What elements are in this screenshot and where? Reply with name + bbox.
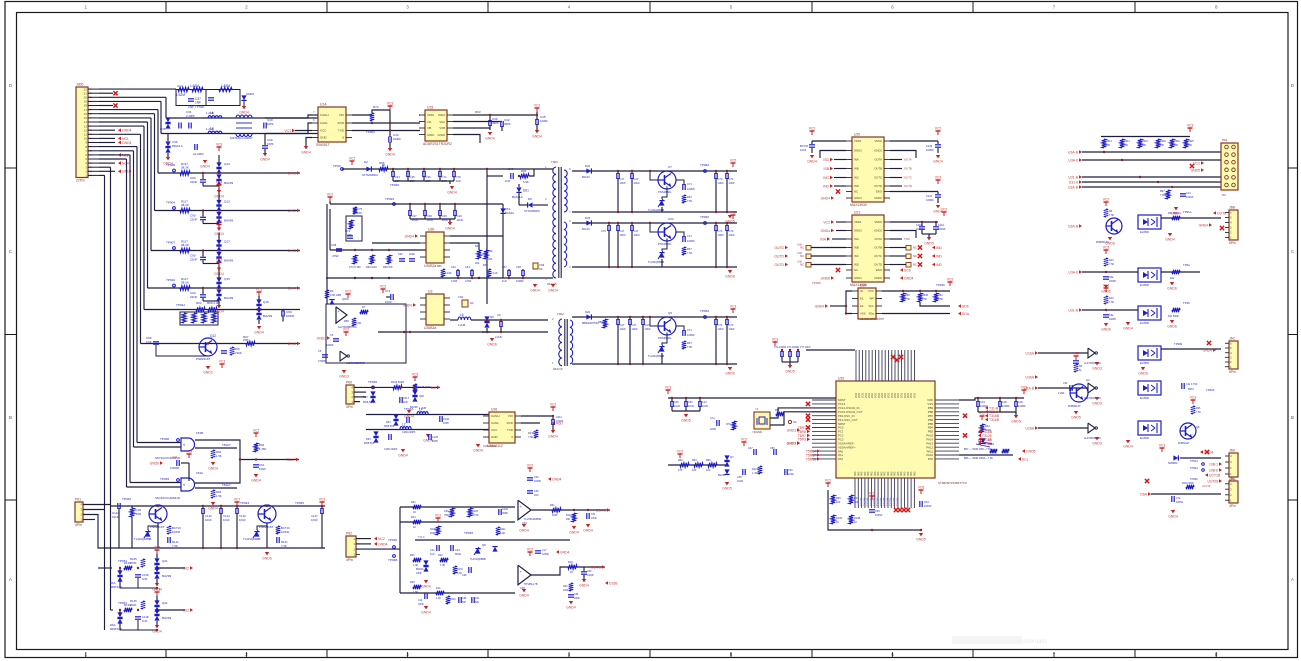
svg-text:10UF: 10UF [718,327,725,331]
svg-text:T312B6: T312B6 [896,497,899,506]
svg-text:1UF: 1UF [456,179,462,183]
svg-text:6Pin: 6Pin [1229,370,1236,374]
svg-text:BCT16: BCT16 [800,144,809,148]
svg-text:CN2: CN2 [458,295,464,299]
svg-text:26.5K: 26.5K [472,514,479,517]
svg-text:153A: 153A [196,471,203,475]
svg-text:R696: R696 [922,294,929,297]
svg-text:1NF: 1NF [505,179,511,183]
svg-text:CN9: CN9 [539,263,545,267]
svg-text:10K: 10K [854,501,859,504]
svg-text:VC3: VC3 [256,288,263,292]
svg-text:VOA: VOA [439,120,445,124]
svg-text:A62M: A62M [246,92,254,96]
svg-text:10UF: 10UF [620,233,627,237]
svg-text:C94: C94 [924,501,929,504]
svg-text:TP946: TP946 [936,283,945,287]
svg-text:C6a: C6a [1109,314,1114,317]
svg-text:100NF: 100NF [1018,404,1026,408]
svg-text:10UF: 10UF [620,181,627,185]
svg-text:GND5: GND5 [1071,416,1081,420]
svg-text:SD6: SD6 [962,304,969,308]
svg-text:GND3: GND3 [787,428,797,432]
svg-text:Q21: Q21 [162,559,168,563]
svg-text:2.20PF: 2.20PF [186,114,195,118]
svg-text:OUTD: OUTD [774,246,784,250]
svg-text:VC2: VC2 [1103,198,1110,202]
svg-text:R77: R77 [201,315,206,319]
svg-text:100NF: 100NF [926,198,934,202]
svg-text:GND2: GND2 [874,276,882,280]
svg-text:ISD: ISD [823,158,829,162]
svg-text:VCC: VCC [320,129,327,133]
svg-text:9K: 9K [382,163,386,167]
svg-text:VIB: VIB [427,126,432,130]
svg-text:R56: R56 [344,319,349,323]
svg-text:R74: R74 [373,105,379,109]
svg-text:TP907: TP907 [166,241,175,245]
svg-text:VC5: VC5 [730,159,737,163]
svg-text:R91: R91 [938,294,943,297]
svg-text:2.11K: 2.11K [491,271,498,275]
svg-text:1K: 1K [413,511,416,514]
svg-text:C106: C106 [443,418,450,421]
svg-text:100NF: 100NF [924,505,932,508]
svg-text:C22: C22 [172,455,178,459]
svg-text:A2.20PF: A2.20PF [193,152,204,156]
svg-text:VC3: VC3 [387,102,394,106]
svg-text:T3132: T3132 [982,442,992,446]
svg-text:100NF: 100NF [286,314,295,318]
svg-text:C71: C71 [687,328,692,332]
svg-text:R66: R66 [706,459,711,462]
svg-text:GND5: GND5 [681,419,691,423]
svg-text:C12 4.7NF: C12 4.7NF [1186,383,1198,386]
svg-text:VC3: VC3 [216,143,223,147]
svg-text:R129: R129 [124,561,131,565]
svg-text:7.5K: 7.5K [1109,263,1114,266]
svg-text:C36: C36 [1018,400,1023,404]
svg-text:VOB: VOB [439,126,445,130]
svg-text:66UF: 66UF [455,553,462,556]
svg-text:1.5K: 1.5K [938,298,943,301]
svg-text:GND3: GND3 [1092,402,1102,406]
svg-text:C12: C12 [702,401,707,404]
svg-text:VC2: VC2 [527,464,534,468]
svg-text:VC3: VC3 [1187,124,1194,128]
svg-text:22AF: 22AF [409,253,415,256]
svg-text:GND6: GND6 [1167,325,1177,329]
svg-text:OUTC: OUTC [874,254,882,258]
svg-text:7.5K: 7.5K [687,345,693,349]
svg-text:TP909: TP909 [1174,342,1183,346]
svg-text:TP938: TP938 [160,437,169,441]
svg-text:R19: R19 [568,561,573,564]
svg-text:B-6: B-6 [431,386,436,390]
svg-text:10K: 10K [1174,144,1179,147]
svg-text:1.62M: 1.62M [190,84,199,88]
svg-text:1NF: 1NF [403,400,408,404]
svg-text:TP94B: TP94B [388,558,397,562]
svg-text:CANL: CANL [491,421,499,425]
svg-text:VC2: VC2 [809,127,816,131]
svg-text:R67: R67 [483,263,488,267]
svg-text:VC2: VC2 [935,127,942,131]
svg-text:B62: B62 [183,566,189,570]
svg-text:L2: L2 [402,423,406,427]
svg-text:TP945: TP945 [464,531,473,535]
svg-text:GND6: GND6 [1138,372,1148,376]
svg-text:D6A: D6A [1140,492,1147,496]
svg-text:C6a: C6a [1109,276,1114,279]
svg-text:1.46K: 1.46K [259,447,266,451]
svg-text:TLV2364IDB6R: TLV2364IDB6R [524,518,542,521]
svg-text:GND5: GND5 [1011,420,1021,424]
svg-text:10B-6: 10B-6 [1209,468,1218,472]
svg-text:22Pin: 22Pin [76,179,85,183]
svg-text:Q16: Q16 [263,300,269,304]
svg-text:10UF: 10UF [718,181,725,185]
svg-text:NC: NC [913,263,917,267]
svg-text:IND: IND [854,263,859,267]
svg-text:C30: C30 [688,401,693,404]
svg-text:VC2: VC2 [435,514,442,518]
svg-text:10K: 10K [1188,144,1193,147]
svg-text:VC2: VC2 [349,157,356,161]
svg-text:TP940: TP940 [390,183,399,187]
svg-text:VC3: VC3 [665,386,672,390]
svg-text:MBR4200T3G: MBR4200T3G [582,321,599,325]
svg-text:RXD: RXD [338,121,345,125]
svg-text:R126: R126 [472,510,479,513]
svg-text:T900: T900 [551,160,558,164]
svg-text:D61: D61 [523,189,529,193]
svg-text:VC2: VC2 [1073,352,1080,356]
svg-text:AL27606B8T3G: AL27606B8T3G [346,361,365,365]
svg-text:OUT6: OUT6 [1217,211,1226,215]
svg-text:10UF: 10UF [674,405,681,408]
svg-text:GND4: GND4 [447,191,457,195]
svg-text:R7: R7 [362,305,366,309]
svg-text:D63: D63 [366,438,371,441]
svg-text:D16B: D16B [609,581,618,585]
svg-text:VDD1: VDD1 [854,139,862,143]
svg-text:UC#26: UC#26 [1207,479,1218,483]
svg-text:GND4: GND4 [548,435,558,439]
svg-text:OUTA: OUTA [874,237,882,241]
svg-text:4Pin: 4Pin [346,558,353,562]
svg-text:GND4: GND4 [421,585,431,589]
svg-text:CANH: CANH [491,414,500,418]
svg-text:10UF: 10UF [634,233,641,237]
svg-text:OUTD: OUTD [774,263,784,267]
svg-text:10K: 10K [1160,144,1165,147]
svg-text:U3A-B: U3A-B [1068,150,1079,154]
svg-text:GND4: GND4 [821,196,831,200]
svg-text:100F: 100F [563,589,569,592]
svg-text:VC3: VC3 [154,588,161,592]
svg-text:15PF: 15PF [443,422,449,425]
svg-text:ADDR2S1TR2UR2: ADDR2S1TR2UR2 [423,142,452,146]
svg-text:BAV99: BAV99 [224,219,233,223]
svg-text:U15: U15 [427,106,433,110]
svg-text:10UF: 10UF [205,518,212,522]
svg-text:20K: 20K [475,262,480,265]
svg-text:R11 500R: R11 500R [1168,315,1179,318]
svg-text:SM56BA: SM56BA [1168,462,1178,465]
svg-text:MD8.5C6: MD8.5C6 [363,401,374,404]
svg-text:1.62M: 1.62M [176,93,185,97]
svg-text:VC3: VC3 [219,360,226,364]
svg-text:OUTB: OUTB [874,167,882,171]
svg-text:BAV99: BAV99 [224,259,233,263]
svg-text:GND6: GND6 [262,557,272,561]
svg-text:A: A [9,577,12,582]
svg-text:R626: R626 [1160,140,1166,143]
svg-text:RXD: RXD [507,421,514,425]
svg-text:GND4: GND4 [583,529,593,533]
svg-text:R68 10K: R68 10K [383,266,393,269]
svg-text:TP926: TP926 [1190,477,1198,481]
svg-text:5.9K: 5.9K [523,180,529,184]
svg-text:D3A-B: D3A-B [596,508,607,512]
svg-text:1.5K: 1.5K [413,591,418,594]
svg-text:R42: R42 [985,424,990,428]
svg-text:GND6: GND6 [725,275,735,279]
svg-text:C36: C36 [534,490,539,493]
svg-text:MD8.5C6: MD8.5C6 [384,425,395,428]
svg-text:VCC: VCC [868,289,874,293]
svg-text:100NF: 100NF [875,514,883,517]
svg-text:C71: C71 [687,234,692,238]
svg-text:GND4: GND4 [519,594,529,598]
svg-text:TL431QDB8B: TL431QDB8B [243,537,261,541]
svg-text:TP943: TP943 [240,501,249,505]
svg-text:R128 200K: R128 200K [418,386,431,389]
svg-text:R136: R136 [528,432,535,435]
svg-text:47NF: 47NF [465,279,472,283]
svg-text:TP930: TP930 [388,538,397,542]
svg-text:U26A6112: U26A6112 [483,444,496,448]
svg-text:VC3: VC3 [186,450,193,454]
svg-text:C117: C117 [403,396,410,400]
svg-text:C47: C47 [620,229,625,233]
svg-text:GND1: GND1 [854,276,862,280]
svg-text:50F: 50F [475,601,480,604]
svg-text:DI-01: DI-01 [288,171,296,175]
svg-text:VSS: VSS [860,312,866,316]
svg-text:7.5K: 7.5K [281,544,287,548]
svg-text:INA: INA [854,237,859,241]
svg-text:2.2NF: 2.2NF [1058,392,1065,395]
svg-text:R10: R10 [436,587,441,590]
svg-text:TL431QDB8B: TL431QDB8B [470,558,486,561]
svg-text:T31-6: T31-6 [418,536,425,539]
svg-text:10PF: 10PF [267,122,274,126]
svg-text:R67: R67 [687,341,692,345]
svg-text:R30: R30 [563,585,568,588]
svg-text:GND3: GND3 [787,441,797,445]
svg-text:NC: NC [854,190,858,194]
svg-text:C39: C39 [587,570,592,573]
svg-text:1.3K: 1.3K [413,564,418,567]
svg-text:22NF: 22NF [190,180,198,184]
svg-text:GND1: GND1 [854,229,862,233]
svg-text:EL3500: EL3500 [1140,396,1150,400]
svg-text:E1: E1 [860,297,864,301]
svg-text:38.3K: 38.3K [181,203,189,207]
svg-text:R63: R63 [196,301,202,305]
svg-text:C47: C47 [620,177,625,181]
svg-text:U3A-B: U3A-B [1068,185,1079,189]
svg-text:C6: C6 [497,313,501,317]
svg-text:J6D: J6D [1229,449,1236,453]
svg-text:VC3: VC3 [1190,396,1197,400]
svg-text:TP903: TP903 [366,130,375,134]
svg-text:TP962: TP962 [700,309,709,313]
svg-text:DI-03: DI-03 [288,249,296,253]
svg-text:C36: C36 [160,127,166,131]
svg-text:T53A?: T53A? [222,443,231,447]
svg-text:C73: C73 [729,229,734,233]
svg-text:TP6a: TP6a [1183,263,1190,267]
svg-text:C121: C121 [926,194,933,198]
svg-text:R111: R111 [500,528,506,531]
svg-text:GND5: GND5 [722,487,732,491]
svg-text:GND6: GND6 [821,276,831,280]
svg-text:B: B [1291,415,1294,420]
svg-text:R625: R625 [1188,140,1194,143]
svg-text:GND3: GND3 [339,375,349,379]
svg-text:10UF: 10UF [702,405,709,408]
svg-text:PA2: PA2 [838,457,844,461]
svg-text:GND4: GND4 [519,529,529,533]
svg-text:ISB: ISB [824,167,830,171]
svg-text:86C16: 86C16 [582,227,590,231]
svg-text:M24256-BR6MN6TP: M24256-BR6MN6TP [860,317,884,321]
svg-text:D20: D20 [585,216,591,220]
svg-text:R10: R10 [1109,259,1114,262]
svg-text:1K: 1K [413,526,416,529]
svg-text:SDa: SDa [869,312,875,316]
svg-text:1000F: 1000F [393,137,401,141]
svg-text:GND5: GND5 [1026,450,1036,454]
svg-text:GND4: GND4 [208,507,218,511]
svg-text:GND4: GND4 [260,158,270,162]
svg-text:GND4: GND4 [560,550,570,554]
svg-text:P60: P60 [346,381,352,385]
svg-text:TXD: TXD [338,129,345,133]
svg-text:C47: C47 [748,447,753,450]
svg-text:VC3: VC3 [216,220,223,224]
svg-text:C23: C23 [980,400,985,404]
svg-text:B67 — 500R R96—7.5K: B67 — 500R R96—7.5K [964,448,992,451]
svg-text:GND4: GND4 [239,111,249,115]
svg-text:A99: A99 [488,250,493,253]
svg-text:10K: 10K [1124,144,1129,147]
svg-text:C42: C42 [451,265,456,269]
svg-text:10B-1: 10B-1 [1209,462,1218,466]
svg-text:GND4: GND4 [1165,238,1175,242]
svg-text:PNS2660L: PNS2660L [658,242,672,246]
svg-text:U21: U21 [854,211,860,215]
svg-text:47NF: 47NF [332,254,339,258]
svg-text:OUTA: OUTA [904,158,912,162]
svg-text:C73: C73 [718,177,723,181]
svg-text:PN82416T: PN82416T [196,357,211,361]
svg-text:R62: R62 [177,84,183,88]
svg-text:BaV99: BaV99 [718,474,726,477]
svg-text:1.49K: 1.49K [752,472,759,475]
svg-text:R126 500R: R126 500R [391,380,404,384]
svg-text:TP910: TP910 [166,278,175,282]
svg-text:GND2: GND2 [874,196,882,200]
svg-text:C30: C30 [534,476,539,479]
svg-text:GND4: GND4 [485,137,495,141]
svg-text:CN6: CN6 [797,261,802,264]
svg-text:GND4: GND4 [569,531,579,535]
svg-text:NC4: NC4 [122,162,129,166]
svg-text:ST6826FSS486T7TR: ST6826FSS486T7TR [938,481,968,485]
svg-text:7.5K: 7.5K [1109,301,1114,304]
svg-text:U16A: U16A [1026,351,1035,355]
svg-text:1000F: 1000F [587,574,594,577]
svg-text:NC: NC [913,254,917,258]
svg-text:R47: R47 [854,497,859,500]
svg-text:VC2: VC2 [730,211,737,215]
svg-text:PA9: PA9 [928,457,934,461]
svg-text:VC3: VC3 [412,373,419,377]
svg-text:1.5K: 1.5K [216,454,222,458]
svg-text:TP906: TP906 [166,163,175,167]
svg-text:OUTB: OUTB [874,246,882,250]
svg-text:Q3: Q3 [1086,378,1090,382]
svg-text:22NF: 22NF [190,258,198,262]
svg-text:6Pin: 6Pin [1229,241,1236,245]
svg-text:A: A [1291,577,1294,582]
svg-text:1.2UB: 1.2UB [458,323,465,327]
svg-text:GND4: GND4 [301,151,311,155]
svg-text:GND3: GND3 [1092,442,1102,446]
svg-text:50F: 50F [462,601,467,604]
svg-text:C71: C71 [687,182,692,186]
svg-text:PN8561L6T: PN8561L6T [1068,405,1081,408]
svg-text:100NF: 100NF [938,228,946,231]
svg-text:R25: R25 [410,581,415,584]
svg-text:U31-6: U31-6 [1069,180,1078,184]
svg-text:U7: U7 [668,165,672,169]
svg-text:C36: C36 [737,476,742,479]
svg-text:VC2: VC2 [1193,161,1200,165]
svg-text:TP904: TP904 [166,201,175,205]
svg-text:D6: D6 [528,197,532,201]
svg-text:BAS21A: BAS21A [512,195,523,199]
svg-text:7.5K: 7.5K [687,251,693,255]
svg-text:VC3: VC3 [935,176,942,180]
svg-text:GND4: GND4 [530,289,540,293]
svg-text:10UF: 10UF [112,515,120,519]
svg-text:EL3500: EL3500 [1140,361,1150,365]
svg-text:Q13: Q13 [224,200,230,204]
svg-text:C30: C30 [1002,400,1007,404]
svg-text:200K: 200K [130,603,137,607]
svg-text:D64: D64 [386,421,391,424]
svg-text:Y1: Y1 [755,407,759,411]
svg-text:GND4: GND4 [552,477,562,481]
svg-text:38.3K: 38.3K [181,281,189,285]
svg-text:GND4: GND4 [421,611,431,615]
svg-text:1NF: 1NF [195,101,201,105]
